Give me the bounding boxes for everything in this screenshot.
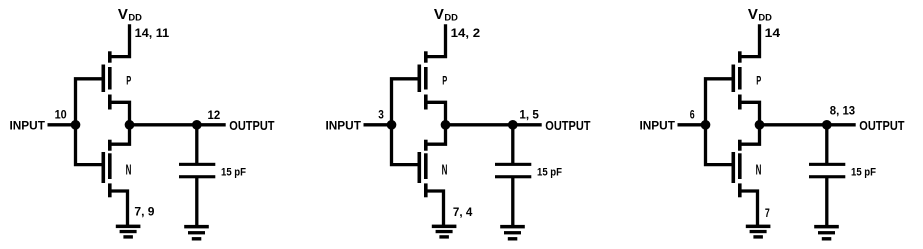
node: capacitor junction dot (circuit 3) — [822, 120, 832, 130]
label OUTPUT (circuit 2) — [545, 119, 591, 133]
transistor P1 p-channel MOSFET (circuit 2) — [418, 51, 428, 109]
label P (circuit 3) — [756, 75, 761, 88]
wire: output line to OUTPUT (circuit 1) — [130, 123, 226, 126]
svg-text:6: 6 — [690, 107, 695, 121]
wire: input/gate bus joining P and N gates (circuit 1) — [76, 79, 103, 165]
label OUTPUT (circuit 3) — [859, 119, 905, 133]
ground symbol at N source (circuit 3) — [746, 225, 771, 239]
svg-text:OUTPUT: OUTPUT — [859, 119, 905, 133]
svg-text:N: N — [756, 162, 762, 178]
label INPUT (circuit 1) — [10, 118, 46, 132]
node: input junction dot (circuit 3) — [701, 120, 711, 130]
svg-text:8, 13: 8, 13 — [830, 104, 856, 118]
svg-text:P: P — [756, 75, 761, 88]
node: output junction dot (circuit 2) — [441, 120, 451, 130]
svg-text:15 pF: 15 pF — [537, 166, 562, 178]
wire: VDD stub down to P source lead (circuit 3) — [740, 24, 760, 56]
capacitor C1 15 pF load (circuit 3) — [809, 163, 845, 179]
wire: INPUT lead (circuit 3) — [678, 123, 706, 126]
pin number(s) 14 on VDD (circuit 3) — [765, 26, 781, 40]
label N (circuit 3) — [756, 162, 762, 178]
ground symbol at capacitor (circuit 1) — [184, 225, 209, 241]
wire: N source to ground (circuit 1) — [110, 191, 128, 226]
svg-text:OUTPUT: OUTPUT — [229, 119, 275, 133]
svg-text:P: P — [126, 75, 131, 88]
svg-text:7, 9: 7, 9 — [134, 205, 155, 219]
ground symbol at N source (circuit 2) — [432, 225, 457, 239]
label OUTPUT (circuit 1) — [229, 119, 275, 133]
svg-text:10: 10 — [55, 107, 68, 121]
net VDD label (circuit 1) — [118, 7, 142, 23]
pin number(s) 7, 9 on N source (circuit 1) — [134, 205, 155, 219]
svg-text:14: 14 — [765, 26, 781, 40]
wire: P drain / N drain junction to output node (circuit 3) — [740, 102, 760, 144]
node: capacitor junction dot (circuit 2) — [508, 120, 518, 130]
svg-text:OUTPUT: OUTPUT — [545, 119, 591, 133]
wire: output node down to capacitor (circuit 1) — [195, 125, 198, 163]
wire: output line to OUTPUT (circuit 3) — [760, 123, 856, 126]
pin number 6 on input (circuit 3) — [690, 107, 695, 121]
wire: capacitor to ground (circuit 3) — [825, 178, 828, 227]
svg-text:INPUT: INPUT — [10, 118, 46, 132]
wire: output node down to capacitor (circuit 2) — [511, 125, 514, 163]
label N (circuit 1) — [126, 162, 132, 178]
pin number(s) 14, 2 on VDD (circuit 2) — [451, 26, 481, 40]
pin number(s) 7 on N source (circuit 3) — [765, 206, 770, 220]
node: capacitor junction dot (circuit 1) — [192, 120, 202, 130]
net VDD label (circuit 3) — [748, 7, 772, 23]
svg-text:3: 3 — [378, 107, 384, 121]
pin number 3 on input (circuit 2) — [378, 107, 384, 121]
capacitor C1 15 pF load (circuit 2) — [495, 163, 531, 179]
node: output junction dot (circuit 1) — [125, 120, 135, 130]
wire: VDD stub down to P source lead (circuit 1) — [110, 24, 130, 56]
svg-text:V: V — [118, 7, 128, 23]
label INPUT (circuit 3) — [640, 118, 676, 132]
svg-text:7: 7 — [765, 206, 770, 220]
pin number(s) 8, 13 on output (circuit 3) — [830, 104, 856, 118]
pin number(s) 7, 4 on N source (circuit 2) — [453, 205, 473, 219]
wire: P drain / N drain junction to output node (circuit 2) — [426, 102, 446, 144]
pin number(s) 12 on output (circuit 1) — [208, 108, 221, 122]
svg-text:1, 5: 1, 5 — [519, 108, 539, 122]
pin number 10 on input (circuit 1) — [55, 107, 68, 121]
wire: capacitor to ground (circuit 1) — [195, 178, 198, 227]
wire: capacitor to ground (circuit 2) — [511, 178, 514, 227]
svg-text:12: 12 — [208, 108, 221, 122]
svg-text:V: V — [434, 7, 444, 23]
wire: P drain / N drain junction to output node (circuit 1) — [110, 102, 130, 144]
value label 15 pF (circuit 3) — [851, 166, 876, 178]
transistor P1 p-channel MOSFET (circuit 3) — [732, 51, 742, 109]
svg-text:15 pF: 15 pF — [221, 166, 246, 178]
svg-text:DD: DD — [128, 12, 142, 23]
transistor N1 n-channel MOSFET (circuit 3) — [732, 140, 742, 198]
svg-text:N: N — [126, 162, 132, 178]
wire: input/gate bus joining P and N gates (circuit 3) — [706, 79, 733, 165]
svg-text:14, 2: 14, 2 — [451, 26, 481, 40]
wire: INPUT lead (circuit 1) — [48, 123, 76, 126]
label N (circuit 2) — [442, 162, 448, 178]
wire: output line to OUTPUT (circuit 2) — [446, 123, 542, 126]
wire: output node down to capacitor (circuit 3) — [825, 125, 828, 163]
transistor N1 n-channel MOSFET (circuit 2) — [418, 140, 428, 198]
wire: input/gate bus joining P and N gates (circuit 2) — [392, 79, 419, 165]
ground symbol at N source (circuit 1) — [116, 225, 141, 239]
value label 15 pF (circuit 2) — [537, 166, 562, 178]
svg-text:V: V — [748, 7, 758, 23]
svg-text:7, 4: 7, 4 — [453, 205, 473, 219]
svg-text:P: P — [442, 75, 447, 88]
svg-text:N: N — [442, 162, 448, 178]
wire: VDD stub down to P source lead (circuit 2) — [426, 24, 446, 56]
label P (circuit 1) — [126, 75, 131, 88]
ground symbol at capacitor (circuit 2) — [500, 225, 525, 241]
value label 15 pF (circuit 1) — [221, 166, 246, 178]
transistor N1 n-channel MOSFET (circuit 1) — [102, 140, 112, 198]
svg-text:INPUT: INPUT — [326, 118, 362, 132]
svg-text:DD: DD — [758, 12, 772, 23]
capacitor C1 15 pF load (circuit 1) — [179, 163, 215, 179]
svg-text:INPUT: INPUT — [640, 118, 676, 132]
pin number(s) 1, 5 on output (circuit 2) — [519, 108, 539, 122]
transistor P1 p-channel MOSFET (circuit 1) — [102, 51, 112, 109]
node: input junction dot (circuit 2) — [387, 120, 397, 130]
svg-text:15 pF: 15 pF — [851, 166, 876, 178]
wire: INPUT lead (circuit 2) — [364, 123, 392, 126]
pin number(s) 14, 11 on VDD (circuit 1) — [135, 26, 170, 40]
wire: N source to ground (circuit 2) — [426, 191, 444, 226]
label INPUT (circuit 2) — [326, 118, 362, 132]
node: input junction dot (circuit 1) — [71, 120, 81, 130]
net VDD label (circuit 2) — [434, 7, 458, 23]
svg-text:DD: DD — [444, 12, 458, 23]
wire: N source to ground (circuit 3) — [740, 191, 758, 226]
label P (circuit 2) — [442, 75, 447, 88]
node: output junction dot (circuit 3) — [755, 120, 765, 130]
ground symbol at capacitor (circuit 3) — [814, 225, 839, 241]
svg-text:14, 11: 14, 11 — [135, 26, 170, 40]
